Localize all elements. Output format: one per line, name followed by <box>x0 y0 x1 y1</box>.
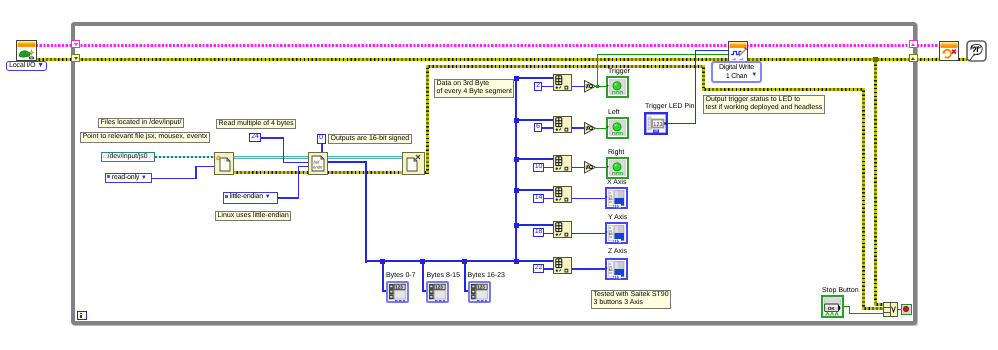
svg-text:OK: OK <box>827 306 835 311</box>
junction dot array row2 <box>514 118 519 123</box>
wire error LINX Close to error handler <box>956 58 967 61</box>
junction dot array row4 <box>514 188 519 193</box>
Open File node <box>214 152 234 175</box>
wire index const row2 to node <box>542 127 553 129</box>
index array node row1 <box>553 74 572 91</box>
wire bool neq0 to Right LED <box>596 167 606 168</box>
wire file error vertical up at x427 <box>426 65 429 174</box>
shift register right olive <box>909 54 918 62</box>
read-only ring constant <box>105 173 152 184</box>
junction dot array y261 x465 <box>462 259 467 264</box>
not-equal-0 node row2 <box>584 122 596 135</box>
array indicator Bytes 16-23 <box>468 281 491 303</box>
wire data array vertical up x516 to row1 <box>515 77 517 261</box>
Digital Write 1 Chan ring <box>711 61 762 83</box>
wire index const row1 to node <box>542 86 553 88</box>
comment label Files located <box>98 118 184 129</box>
numeric constant 14 <box>533 194 544 203</box>
LINX Open (Local I/O) node <box>16 40 37 61</box>
label Z Axis <box>608 248 627 255</box>
wire array branch to Bytes 16-23 <box>464 260 466 291</box>
wire file error horizontal y89 <box>702 88 865 91</box>
wire array branch row2 <box>515 119 554 121</box>
shift register left olive <box>71 54 80 62</box>
svg-text:endn: endn <box>313 165 323 170</box>
wire array branch row5 <box>515 224 554 226</box>
wire row1 out to neq0 <box>572 86 584 88</box>
Local I/O ring constant <box>6 61 47 71</box>
wire index const row4 to node <box>544 198 553 200</box>
numeric indicator Y Axis <box>605 222 628 244</box>
wire LINX error branch horizontal into compound OR top input <box>874 303 883 306</box>
comment label Linux uses little-endian <box>215 211 291 222</box>
comment label Data on 3rd Byte <box>434 79 514 98</box>
wire bool Trigger branch up to Digital Write <box>597 54 598 87</box>
wire path constant to Open File (teal dashed) <box>155 156 215 158</box>
numeric indicator X Axis <box>605 187 628 209</box>
wire row5 out to Y Axis <box>572 233 606 235</box>
wire 0 constant down to Read top <box>321 144 323 154</box>
junction dot array row1 <box>514 76 519 81</box>
junction dot olive at x875 <box>873 57 878 62</box>
index array node row2 <box>553 116 572 133</box>
wire array branch row1 <box>515 77 554 79</box>
label Stop Button <box>822 287 859 294</box>
label Bytes 16-23 <box>468 272 505 279</box>
junction dot array row3 <box>514 157 519 162</box>
loop condition stop terminal <box>901 304 913 316</box>
wire bool neq0 to Trigger LED <box>596 86 606 87</box>
wire array branch row3 <box>515 158 554 160</box>
shared icon defs <box>0 0 1 1</box>
wire array branch to Bytes 8-15 <box>422 260 424 291</box>
wire row2 out to neq0 <box>572 127 584 129</box>
wire Trigger LED Pin to Digital Write <box>668 123 696 125</box>
wire LINX reference (pink dashed, Local I/O to LINX Close) <box>36 44 939 47</box>
junction dot bool trigger <box>596 85 599 88</box>
comment label Output trigger status <box>703 95 825 114</box>
wire bool neq0 to Left LED <box>596 128 606 129</box>
shift register right pink <box>909 40 918 48</box>
wire index const row3 to node <box>544 167 553 169</box>
iteration terminal i <box>77 311 87 320</box>
numeric constant 2 <box>534 82 542 91</box>
numeric constant 22 <box>533 264 544 273</box>
index array node row5 <box>553 221 572 238</box>
Simple Error Handler node <box>966 40 987 62</box>
junction dot array y261 x423 <box>420 259 425 264</box>
wire file error horizontal y65 <box>426 65 705 68</box>
label Right <box>608 149 624 156</box>
numeric constant 18 <box>533 228 544 237</box>
comment label Outputs are 16-bit signed <box>328 134 412 145</box>
boolean control Stop Button <box>821 295 844 318</box>
not-equal-0 node row3 <box>584 161 596 174</box>
wire data array Read out to corner <box>325 161 367 163</box>
wire file error into compound OR middle input <box>862 307 883 310</box>
boolean indicator Trigger <box>606 76 629 98</box>
Close File node <box>402 152 425 175</box>
wire file error Read to Close <box>325 171 406 174</box>
wire index const row6 to node <box>544 268 553 270</box>
wire row6 out to Z Axis <box>572 268 606 270</box>
wire file error Open to Read <box>230 171 312 174</box>
wire row4 out to X Axis <box>572 198 606 200</box>
comment label Read multiple of 4 bytes <box>216 119 296 130</box>
wire file refnum Open to Read (teal band) <box>230 156 310 159</box>
array indicator Bytes 0-7 <box>386 281 409 303</box>
wire 24 constant to Read count input <box>261 137 284 139</box>
wire file error vertical down at x862 <box>862 88 865 308</box>
numeric constant 6 <box>534 123 542 132</box>
comment label Point to relevant file <box>80 132 210 143</box>
wire little-endian ring to Read <box>278 197 299 199</box>
0 numeric constant <box>317 134 326 144</box>
compound arithmetic OR node <box>883 302 891 318</box>
label Left <box>608 109 620 116</box>
while loop border <box>71 22 917 325</box>
index array node row6 <box>553 257 572 274</box>
junction dot array y261 x516 <box>514 259 519 264</box>
LINX Digital Write node <box>728 41 748 62</box>
path constant /dev/input/js0 <box>101 152 155 163</box>
boolean indicator Left <box>606 117 629 139</box>
label Trigger LED Pin <box>645 103 695 110</box>
label Bytes 0-7 <box>386 272 416 279</box>
wire LINX error main (olive dashed horizontal) <box>36 58 939 61</box>
numeric control Trigger LED Pin <box>644 112 668 135</box>
wire compound OR out to loop stop terminal <box>897 309 902 310</box>
wire Stop Button to compound OR <box>844 306 850 307</box>
junction dot array row5 <box>514 223 519 228</box>
little-endian ring constant <box>223 192 278 204</box>
shift register left pink <box>71 40 80 48</box>
numeric indicator Z Axis <box>605 258 628 280</box>
wire file error vertical down at x703 <box>702 65 705 91</box>
label Trigger <box>608 68 630 75</box>
wire array branch row4 <box>515 189 554 191</box>
Read from Binary File node <box>308 152 328 175</box>
index array node row3 <box>553 155 572 172</box>
label Bytes 8-15 <box>427 272 460 279</box>
wire data array horizontal y261 <box>365 260 554 262</box>
wire index const row5 to node <box>544 233 553 235</box>
wire file error Close out to corner <box>422 171 429 174</box>
24 numeric constant <box>249 133 261 143</box>
index array node row4 <box>553 186 572 203</box>
svg-text:U8: U8 <box>654 129 658 133</box>
label Y Axis <box>608 214 627 221</box>
array indicator Bytes 8-15 <box>426 281 449 303</box>
wire LINX error branch down to compound OR <box>874 58 877 305</box>
numeric constant 10 <box>533 163 544 172</box>
svg-text:123: 123 <box>653 122 662 128</box>
boolean indicator Right <box>606 157 629 179</box>
LINX Close node <box>939 41 959 61</box>
label X Axis <box>607 179 626 186</box>
comment label Tested with Saitek <box>591 290 671 309</box>
wire array branch to Bytes 0-7 <box>382 260 384 291</box>
wire file refnum Read to Close (teal band) <box>325 156 404 159</box>
junction dot array y261 x382 <box>380 259 385 264</box>
wire data array vertical x366 <box>365 161 367 263</box>
not-equal-0 node row1 <box>584 80 596 93</box>
wire row3 out to neq0 <box>572 167 584 169</box>
wire read-only ring to Open File <box>152 178 196 180</box>
